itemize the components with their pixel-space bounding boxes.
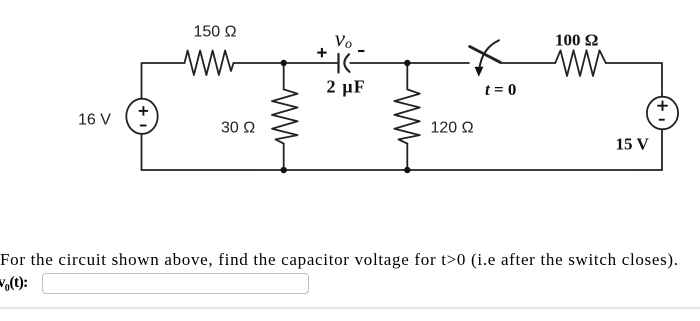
svg-text:16 V: 16 V: [78, 111, 111, 128]
svg-text:2 μF: 2 μF: [327, 77, 367, 97]
svg-text:30 Ω: 30 Ω: [221, 119, 255, 136]
svg-text:15 V: 15 V: [616, 135, 650, 154]
svg-text:150 Ω: 150 Ω: [194, 24, 237, 41]
svg-text:100 Ω: 100 Ω: [555, 31, 598, 50]
svg-text:vo: vo: [335, 26, 352, 52]
svg-text:120 Ω: 120 Ω: [431, 119, 474, 136]
svg-text:t = 0: t = 0: [485, 80, 516, 99]
